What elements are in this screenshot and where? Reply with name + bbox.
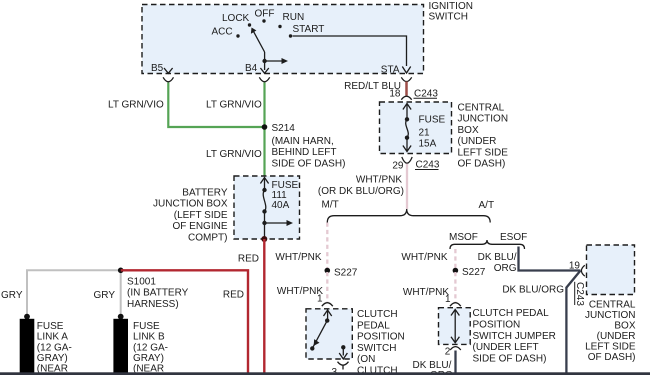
svg-text:CLUTCH PEDAL: CLUTCH PEDAL bbox=[473, 308, 550, 319]
ignition switch position OFF bbox=[255, 9, 275, 23]
wire RED/LT BLU (STA to C243 pin 18) bbox=[405, 82, 408, 96]
svg-text:LOCK: LOCK bbox=[222, 13, 250, 24]
wire DK BLU/ORG diagonal to bottom bbox=[566, 271, 580, 373]
svg-text:SWITCH: SWITCH bbox=[357, 343, 396, 354]
svg-text:JUNCTION BOX: JUNCTION BOX bbox=[153, 199, 228, 210]
wire RED from battery junction box bbox=[263, 239, 265, 373]
svg-text:(LEFT SIDE: (LEFT SIDE bbox=[174, 210, 228, 221]
pin 3 connector (clutch pedal position switch) bbox=[332, 362, 349, 375]
svg-text:21: 21 bbox=[419, 127, 431, 138]
svg-text:RED: RED bbox=[223, 289, 244, 300]
svg-text:WHT/PNK: WHT/PNK bbox=[401, 252, 447, 263]
svg-text:A/T: A/T bbox=[479, 200, 495, 211]
svg-text:(UNDER: (UNDER bbox=[597, 331, 636, 342]
svg-text:SWITCH: SWITCH bbox=[429, 11, 468, 22]
svg-text:M/T: M/T bbox=[322, 200, 339, 211]
label central junction box (lower right) bbox=[585, 299, 636, 363]
label DK BLU/ORG (ESOF upper) bbox=[478, 252, 517, 274]
label FUSE 111 40A bbox=[272, 180, 299, 211]
svg-text:JUNCTION: JUNCTION bbox=[458, 114, 509, 125]
svg-text:CENTRAL: CENTRAL bbox=[589, 299, 636, 310]
ignition switch lever (wiper to LOCK) bbox=[251, 28, 267, 71]
node at battery junction box output bbox=[261, 236, 267, 242]
wire DK BLU/ORG from jumper pin 2 bbox=[454, 351, 456, 373]
svg-text:CENTRAL: CENTRAL bbox=[458, 103, 505, 114]
battery junction box bbox=[234, 176, 300, 239]
node fuse link A bbox=[24, 314, 30, 320]
svg-text:1: 1 bbox=[317, 294, 323, 305]
svg-text:PEDAL: PEDAL bbox=[357, 320, 390, 331]
label RED/LT BLU bbox=[344, 81, 401, 92]
label DK BLU/ORG (below jumper) bbox=[413, 360, 454, 375]
label M/T bbox=[322, 200, 339, 211]
svg-text:S214: S214 bbox=[272, 123, 296, 134]
wire GRY from S1001 to fuse link A bbox=[27, 270, 121, 315]
svg-text:40A: 40A bbox=[272, 200, 290, 211]
central junction box (lower right) bbox=[587, 245, 635, 295]
svg-text:FUSE: FUSE bbox=[37, 321, 64, 332]
svg-text:GRAY): GRAY) bbox=[37, 353, 68, 364]
connector below B5 bbox=[163, 77, 173, 82]
label RED (S1001 branch) bbox=[223, 289, 244, 300]
svg-text:LEFT SIDE: LEFT SIDE bbox=[585, 341, 636, 352]
wire START to STA terminal bbox=[293, 36, 411, 73]
svg-text:DK BLU/: DK BLU/ bbox=[478, 252, 517, 263]
svg-text:COMPT): COMPT) bbox=[188, 232, 227, 243]
wire LT GRN/VIO from B4 bbox=[263, 83, 265, 177]
svg-text:C243: C243 bbox=[574, 282, 585, 306]
svg-text:S1001: S1001 bbox=[127, 276, 156, 287]
pin 19 connector C243 bbox=[569, 260, 585, 276]
fuse link A body bbox=[20, 319, 35, 373]
label LT GRN/VIO (B5) bbox=[108, 100, 164, 111]
svg-text:WHT/PNK: WHT/PNK bbox=[275, 252, 321, 263]
svg-text:OF DASH): OF DASH) bbox=[458, 159, 506, 170]
switch feed arrow (right from pivot) bbox=[265, 58, 288, 64]
svg-text:SIDE OF DASH): SIDE OF DASH) bbox=[473, 353, 547, 364]
splice S227 (A/T) bbox=[453, 267, 486, 278]
svg-text:WHT/PNK: WHT/PNK bbox=[403, 287, 449, 298]
wire GRY stub fuse link B bbox=[120, 270, 122, 315]
svg-text:LT GRN/VIO: LT GRN/VIO bbox=[206, 149, 262, 160]
jumper link symbol bbox=[451, 310, 459, 343]
splice S214 bbox=[262, 123, 346, 169]
brace MSOF vs ESOF split bbox=[450, 240, 525, 249]
svg-text:B5: B5 bbox=[151, 63, 164, 74]
label MSOF bbox=[449, 232, 478, 243]
terminal STA label bbox=[381, 65, 400, 76]
splice S1001 bbox=[118, 268, 189, 310]
label FUSE 21 15A bbox=[419, 114, 446, 149]
svg-text:DK BLU/ORG: DK BLU/ORG bbox=[502, 285, 564, 296]
wire WHT/PNK dashed (M/T branch) bbox=[326, 223, 328, 270]
svg-text:LINK B: LINK B bbox=[133, 332, 165, 343]
svg-text:S227: S227 bbox=[462, 267, 486, 278]
svg-text:GRY: GRY bbox=[1, 290, 23, 301]
label WHT/PNK (A/T above S227) bbox=[401, 252, 447, 263]
label battery junction box bbox=[153, 187, 228, 243]
connector half below STA bbox=[401, 77, 411, 81]
label GRY (left) bbox=[1, 290, 23, 301]
ignition switch position RUN bbox=[278, 12, 304, 28]
fuse link B body bbox=[113, 319, 128, 373]
label clutch pedal position switch bbox=[357, 309, 405, 375]
svg-text:SWITCH JUMPER: SWITCH JUMPER bbox=[473, 331, 556, 342]
wire WHT/PNK dashed (MSOF branch) bbox=[454, 249, 456, 269]
svg-text:OF ENGINE: OF ENGINE bbox=[172, 221, 227, 232]
svg-text:BATTERY: BATTERY bbox=[182, 187, 228, 198]
svg-text:B4: B4 bbox=[245, 63, 258, 74]
svg-text:OF DASH): OF DASH) bbox=[588, 352, 636, 363]
fuse 111 40A symbol bbox=[260, 178, 268, 239]
pin 1 connector (clutch pedal position switch) bbox=[317, 294, 333, 307]
svg-text:STA: STA bbox=[381, 65, 400, 76]
pin 2 connector (jumper) bbox=[445, 347, 461, 358]
svg-text:ESOF: ESOF bbox=[500, 232, 527, 243]
svg-text:WHT/PNK: WHT/PNK bbox=[356, 175, 402, 186]
label LT GRN/VIO (B4 upper) bbox=[206, 100, 262, 111]
svg-text:RED: RED bbox=[238, 253, 259, 264]
junction and feed arrow inside battery junction box bbox=[262, 220, 293, 226]
svg-text:19: 19 bbox=[569, 260, 581, 271]
svg-text:HARNESS): HARNESS) bbox=[127, 299, 179, 310]
svg-text:15A: 15A bbox=[419, 138, 437, 149]
svg-text:CLUTCH: CLUTCH bbox=[357, 309, 398, 320]
svg-text:C243: C243 bbox=[414, 88, 438, 99]
svg-text:FUSE: FUSE bbox=[419, 114, 446, 125]
connector C243 pin 18 bbox=[389, 88, 438, 99]
label RED (battery junction box output) bbox=[238, 253, 259, 264]
wire DK BLU/ORG (ESOF branch) bbox=[519, 247, 581, 271]
svg-text:JUNCTION: JUNCTION bbox=[585, 310, 636, 321]
svg-text:MSOF: MSOF bbox=[449, 232, 478, 243]
ignition switch position LOCK bbox=[222, 13, 251, 27]
svg-text:(IN BATTERY: (IN BATTERY bbox=[127, 288, 189, 299]
connector C243 pin 29 bbox=[392, 157, 439, 171]
clutch pedal position switch box bbox=[306, 309, 352, 359]
svg-text:ORG: ORG bbox=[494, 263, 517, 274]
label GRY (right) bbox=[94, 290, 116, 301]
svg-text:LEFT SIDE: LEFT SIDE bbox=[458, 148, 509, 159]
svg-text:(12 GA-: (12 GA- bbox=[37, 342, 72, 353]
label WHT/PNK (A/T lower) bbox=[403, 287, 449, 298]
label WHT/PNK (M/T lower) bbox=[277, 286, 323, 297]
svg-text:BEHIND LEFT: BEHIND LEFT bbox=[272, 147, 337, 158]
svg-text:(UNDER LEFT: (UNDER LEFT bbox=[473, 342, 539, 353]
svg-text:POSITION: POSITION bbox=[357, 332, 405, 343]
ignition switch position ACC bbox=[212, 27, 240, 38]
label FUSE LINK B bbox=[133, 321, 168, 375]
label central junction box (upper) bbox=[458, 103, 509, 170]
splice S227 (M/T) bbox=[325, 268, 358, 279]
terminal B4 arrow bbox=[245, 63, 269, 74]
ignition switch box bbox=[142, 5, 424, 74]
svg-text:S227: S227 bbox=[334, 268, 358, 279]
wire WHT/PNK from pin 29 bbox=[406, 164, 408, 209]
wire LT GRN/VIO from B5 bbox=[168, 83, 263, 128]
svg-text:OFF: OFF bbox=[255, 9, 275, 20]
svg-text:2: 2 bbox=[445, 347, 451, 358]
svg-text:29: 29 bbox=[392, 160, 404, 171]
svg-text:LT GRN/VIO: LT GRN/VIO bbox=[206, 100, 262, 111]
wire WHT/PNK dashed (S227 to jumper pin 1) bbox=[454, 272, 456, 302]
svg-text:SIDE OF DASH): SIDE OF DASH) bbox=[272, 158, 346, 169]
ignition switch position START bbox=[289, 24, 325, 38]
label DK BLU/ORG (lower) bbox=[502, 285, 564, 296]
fuse 21 15A symbol bbox=[403, 104, 411, 152]
label IGNITION SWITCH bbox=[429, 1, 473, 22]
svg-text:FUSE: FUSE bbox=[133, 321, 160, 332]
svg-text:C243: C243 bbox=[416, 160, 440, 171]
brace M/T vs A/T split bbox=[327, 209, 490, 223]
svg-text:LINK A: LINK A bbox=[37, 332, 68, 343]
label LT GRN/VIO (below S214) bbox=[206, 149, 262, 160]
label ESOF bbox=[500, 232, 527, 243]
svg-text:(12 GA-: (12 GA- bbox=[133, 342, 168, 353]
svg-text:(UNDER: (UNDER bbox=[458, 136, 497, 147]
svg-text:1: 1 bbox=[445, 294, 451, 305]
pin 1 connector (jumper) bbox=[445, 294, 461, 306]
label clutch pedal position switch jumper bbox=[473, 308, 556, 364]
terminal B5 tick bbox=[151, 63, 173, 74]
svg-text:BOX: BOX bbox=[458, 125, 479, 136]
svg-text:(OR DK BLU/ORG): (OR DK BLU/ORG) bbox=[318, 186, 404, 197]
svg-text:GRAY): GRAY) bbox=[133, 353, 164, 364]
label WHT/PNK (below C243) bbox=[318, 175, 404, 197]
bottom page divider bar bbox=[0, 372, 650, 375]
svg-text:POSITION: POSITION bbox=[473, 320, 521, 331]
svg-text:LT GRN/VIO: LT GRN/VIO bbox=[108, 100, 164, 111]
wire WHT/PNK dashed (S227 to pin 1) bbox=[326, 272, 328, 302]
svg-text:(MAIN HARN,: (MAIN HARN, bbox=[272, 136, 334, 147]
svg-text:18: 18 bbox=[389, 88, 401, 99]
label A/T bbox=[479, 200, 495, 211]
wire RED from S1001 bbox=[121, 270, 248, 372]
svg-text:BOX: BOX bbox=[614, 320, 635, 331]
label C243 rotated bbox=[574, 282, 585, 307]
svg-text:ACC: ACC bbox=[212, 27, 233, 38]
clutch pedal position switch contacts bbox=[310, 310, 347, 359]
svg-text:RUN: RUN bbox=[283, 12, 305, 23]
svg-text:START: START bbox=[293, 24, 325, 35]
central junction box (upper) bbox=[380, 102, 452, 154]
connector below B4 bbox=[259, 77, 269, 82]
label FUSE LINK A bbox=[37, 321, 72, 375]
svg-text:GRY: GRY bbox=[94, 290, 116, 301]
svg-text:(ON: (ON bbox=[357, 354, 375, 365]
label WHT/PNK (M/T above S227) bbox=[275, 252, 321, 263]
node fuse link B bbox=[118, 314, 124, 320]
clutch pedal position switch jumper box bbox=[439, 308, 471, 345]
